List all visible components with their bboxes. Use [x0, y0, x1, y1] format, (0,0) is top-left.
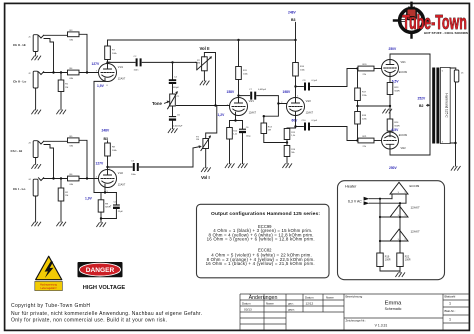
wire cathode to R15: [287, 127, 296, 129]
triode V3/1 12AX7: [227, 96, 257, 116]
capacitor C6 bypass: [242, 121, 244, 129]
jack J2 Ch II - Lo: [13, 71, 44, 88]
svg-text:127V: 127V: [92, 62, 101, 66]
wire grid bus Ch II: [44, 71, 99, 74]
svg-text:16 Ohm = 1 (black) + 4 (yellow: 16 Ohm = 1 (black) + 4 (yellow) = 21,5 k…: [206, 261, 315, 266]
wire R15 to R16: [286, 140, 288, 146]
capacitor C10 cathode out: [296, 115, 304, 126]
transformer core bar right: [436, 68, 439, 144]
ground J1: [35, 52, 37, 56]
resistor R23 560R: [389, 77, 391, 83]
svg-text:2: 2: [96, 177, 97, 179]
svg-text:7: 7: [96, 71, 97, 73]
ground P2: [200, 81, 210, 86]
ground C5: [168, 128, 178, 133]
wire C3 to Vol I wiper: [139, 148, 193, 167]
svg-text:158V: 158V: [227, 90, 236, 94]
jack J5 speaker: [454, 70, 464, 82]
transformer secondary winding box: [440, 68, 450, 144]
wire V9/2 plate to OT: [390, 149, 430, 155]
svg-text:6,3 V AC: 6,3 V AC: [348, 200, 362, 204]
wire rail to R14: [295, 40, 297, 63]
svg-text:Copyright by Tube-Town GmbH: Copyright by Tube-Town GmbH: [11, 303, 90, 309]
heater triangle 12AX7 (V3): [390, 229, 408, 241]
transformer core bar left: [432, 68, 435, 144]
wire rail to R11: [238, 40, 240, 67]
wire P2 bottom to ground: [203, 71, 205, 81]
svg-text:1M: 1M: [268, 130, 271, 132]
resistor R17 220k: [357, 69, 359, 89]
wire V1/1 cathode down to shared cathode: [94, 81, 105, 192]
wire R8 to V1/2 plate: [107, 156, 109, 170]
wire J3 to R5: [44, 140, 68, 142]
svg-text:ECC99: ECC99: [410, 184, 420, 188]
svg-text:7: 7: [227, 105, 228, 107]
wire C3 coupling: [108, 166, 133, 168]
junction dots grid bus Ch I: [52, 177, 54, 179]
svg-text:100R: 100R: [405, 259, 411, 262]
svg-text:100µ: 100µ: [246, 136, 251, 138]
capacitor C9 plate out: [296, 86, 304, 88]
svg-text:12AX7: 12AX7: [411, 230, 420, 234]
wire V3/1 cathode: [230, 115, 243, 120]
wire R20 to V9/1 grid: [374, 68, 382, 70]
wire V9/1 plate to OT: [390, 54, 430, 60]
svg-text:1M: 1M: [197, 63, 200, 65]
svg-text:250V: 250V: [389, 166, 398, 170]
triode V1/2 12AX7: [96, 168, 126, 193]
triode V9/1 ECC99: [382, 60, 408, 77]
svg-text:1M: 1M: [65, 195, 68, 197]
heater triangle ECC99: [390, 182, 408, 194]
jack J4 Ch I - Lo: [13, 178, 44, 196]
wire secondary top to J5: [450, 68, 456, 70]
wire B3 supply rail: [108, 39, 296, 41]
svg-text:Ch I - Hi: Ch I - Hi: [11, 149, 23, 153]
resistor R14 100k: [293, 63, 299, 77]
svg-text:Nur für private, nicht kommerz: Nur für private, nicht kommerzielle Anwe…: [11, 311, 202, 317]
svg-text:1: 1: [297, 96, 298, 98]
svg-text:gez.:: gez.:: [288, 301, 294, 305]
jack J3 Ch I - Hi: [11, 141, 44, 158]
svg-text:1,2V: 1,2V: [218, 113, 226, 117]
svg-text:Heater: Heater: [345, 185, 357, 189]
capacitor C1 22µF: [115, 193, 117, 205]
svg-text:DANGER: DANGER: [86, 267, 115, 274]
wire R3 to grid bus: [79, 34, 87, 72]
triode V1/1 12AX7: [96, 62, 126, 87]
wire C9 to upper grid rail: [311, 69, 358, 87]
ground J2: [35, 88, 37, 110]
resistor R18 220k: [357, 101, 359, 112]
svg-text:HIGH VOLTAGE: HIGH VOLTAGE: [83, 285, 126, 291]
svg-text:Datum: Datum: [242, 301, 251, 305]
svg-text:B2: B2: [419, 104, 424, 108]
capacitor C7 0,055µF: [251, 92, 255, 100]
wire heater bus A: [369, 199, 392, 253]
svg-text:Only for private, non commerci: Only for private, non commercial use. Bu…: [11, 318, 167, 324]
resistor R16 56k: [284, 146, 290, 157]
ground cathode V1: [96, 222, 106, 227]
logo crosshair ring: [400, 9, 424, 33]
wire coupling C2: [108, 61, 136, 63]
wire tone node to V3/1 grid: [177, 105, 230, 107]
svg-text:V 1.3.31: V 1.3.31: [375, 324, 388, 328]
svg-text:Änderungen: Änderungen: [249, 294, 278, 301]
svg-text:V1/1: V1/1: [118, 66, 124, 69]
svg-text:100n: 100n: [134, 70, 140, 72]
svg-text:Tone: Tone: [152, 101, 163, 106]
heater triangle 12AX7 (V1): [390, 205, 408, 217]
wire B3 feed down: [295, 22, 297, 40]
svg-text:22µF: 22µF: [118, 211, 124, 213]
ground J3: [35, 158, 37, 165]
svg-text:Bezeichnung: Bezeichnung: [346, 295, 363, 299]
resistor R2 1M: [60, 179, 62, 189]
svg-text:248V: 248V: [102, 128, 111, 132]
svg-text:03/13: 03/13: [244, 308, 252, 312]
logo tube glyph: [407, 9, 416, 20]
svg-text:Ch I - Lo: Ch I - Lo: [13, 187, 25, 191]
wire shared cathode bus: [94, 187, 116, 192]
wire P2 top to node line: [204, 53, 215, 106]
capacitor C4 500pF: [169, 80, 176, 83]
wire grid bus Ch I: [44, 177, 99, 180]
svg-text:0,1µF: 0,1µF: [312, 120, 318, 122]
jack J1 Ch II - Hi: [13, 35, 44, 52]
svg-text:1: 1: [449, 302, 451, 306]
wire heater links tube 2: [380, 216, 406, 218]
ground J4: [35, 196, 37, 222]
resistor R4 68k: [68, 70, 80, 75]
svg-text:1,9V: 1,9V: [97, 84, 105, 88]
ground R16: [282, 163, 292, 168]
svg-text:12/12: 12/12: [306, 301, 314, 305]
svg-text:V9/1: V9/1: [401, 61, 407, 64]
svg-text:Ch II - Hi: Ch II - Hi: [13, 43, 26, 47]
capacitor C3 100n: [134, 163, 138, 171]
resistor R7 100k: [105, 46, 111, 60]
wire B3 to R8: [107, 141, 109, 143]
wire V1/1 plate: [107, 60, 109, 64]
triode V3/2 12AX7: [281, 96, 313, 116]
svg-text:Vol II: Vol II: [200, 46, 210, 51]
resistor R6 68k: [68, 176, 80, 181]
svg-text:V3/1: V3/1: [249, 100, 255, 103]
svg-text:127V: 127V: [96, 162, 105, 166]
wire P3 bottom to ground: [205, 149, 207, 168]
potentiometer P3 Vol I: [193, 135, 211, 150]
transformer primary lead line: [429, 54, 431, 155]
potentiometer P1 Tone: [165, 84, 181, 109]
wire R14 to V3/2 plate: [295, 76, 297, 98]
warning label Hochspannung: [35, 281, 63, 290]
svg-text:gepr.:: gepr.:: [288, 307, 295, 311]
title block grid: [240, 294, 469, 330]
resistor R11 100k plate V3/1: [236, 67, 242, 80]
wire J3 switch to grid bus: [44, 145, 54, 179]
svg-text:Blatt-Nr.:: Blatt-Nr.:: [445, 309, 456, 313]
wire heater links tube 3: [380, 240, 406, 242]
wire heater resistor bottoms: [380, 267, 400, 273]
ground C6: [238, 163, 248, 168]
logo dashes: [401, 19, 405, 21]
capacitor C2 100n: [137, 58, 141, 66]
ground R10: [225, 163, 235, 168]
wire heater stubs tube 1: [392, 194, 406, 203]
ground P3: [201, 167, 211, 172]
svg-text:250V: 250V: [389, 47, 398, 51]
svg-text:V9/2: V9/2: [401, 147, 407, 150]
triode V9/2 ECC99: [382, 132, 408, 150]
ground secondary: [451, 166, 461, 171]
svg-text:Ch II - Lo: Ch II - Lo: [13, 79, 26, 83]
ground output cathodes: [382, 109, 392, 114]
resistor R20 22k: [356, 67, 358, 69]
svg-text:12AX7: 12AX7: [118, 184, 126, 187]
resistor R3 68k: [68, 32, 80, 37]
wire R17/R18 midpoint to cathode ground: [358, 105, 391, 107]
svg-text:12AX7: 12AX7: [118, 78, 126, 81]
svg-text:ECC99: ECC99: [399, 134, 408, 137]
wire J1 switch to grid bus: [44, 39, 54, 73]
wire secondary bottom to ground: [450, 82, 455, 166]
svg-text:ECC99: ECC99: [399, 71, 408, 74]
resistor R1 1M: [60, 73, 62, 81]
capacitor C5 0,0047µF: [172, 106, 174, 116]
wire R7 to B3 rail: [107, 40, 109, 46]
wire C10 to lower grid rail: [311, 127, 358, 141]
resistor R13 1M: [261, 123, 267, 134]
svg-text:1M: 1M: [196, 139, 199, 141]
wire node to P3 top: [206, 106, 217, 139]
wire R5 to grid bus: [79, 140, 87, 178]
wire C2 to Vol II wiper: [142, 61, 195, 63]
wire heater bus B: [369, 203, 406, 253]
svg-text:Emma: Emma: [385, 300, 403, 306]
svg-text:Schematic: Schematic: [385, 307, 402, 311]
ground R2: [56, 222, 66, 227]
svg-text:560R: 560R: [394, 90, 400, 92]
svg-text:Name: Name: [326, 295, 334, 299]
potentiometer P2 Vol II: [196, 56, 213, 71]
svg-text:100R: 100R: [385, 259, 391, 262]
resistor R15 1,5k: [284, 129, 290, 140]
wire B2 arrow to center tap: [427, 104, 429, 106]
svg-text:12AX7: 12AX7: [306, 112, 314, 115]
wire C7 to V3/2 grid and R13: [257, 96, 287, 123]
svg-text:198V: 198V: [283, 90, 292, 94]
svg-text:1,9V: 1,9V: [85, 197, 93, 201]
junction dots grid bus Ch II: [52, 71, 54, 73]
resistor R9 820R: [100, 193, 102, 200]
svg-text:0,0047µF: 0,0047µF: [173, 125, 183, 127]
svg-text:Datum: Datum: [305, 295, 314, 299]
svg-text:12AX7: 12AX7: [249, 112, 257, 115]
svg-text:1M: 1M: [65, 87, 68, 89]
svg-text:252V: 252V: [418, 97, 427, 101]
svg-text:Blattzahl: Blattzahl: [445, 295, 456, 299]
wire plate to C7: [239, 95, 250, 97]
svg-text:0,055µF: 0,055µF: [258, 89, 267, 91]
wire R21 to V9/2 grid: [374, 140, 382, 142]
wire R13 to tail junction: [264, 134, 287, 143]
svg-text:1: 1: [109, 168, 110, 170]
svg-text:16 Ohm = 3 (green) + 6 (white): 16 Ohm = 3 (green) + 6 (white) = 12,8 kO…: [207, 236, 315, 241]
svg-text:Name: Name: [266, 301, 274, 305]
wire tone branch: [172, 62, 174, 79]
warning triangle high voltage: [36, 256, 62, 280]
svg-text:Lebensgefahr!: Lebensgefahr!: [41, 287, 57, 290]
resistor R5 68k: [68, 138, 80, 143]
svg-text:V3/2: V3/2: [306, 100, 312, 103]
svg-text:12AX7: 12AX7: [411, 206, 420, 210]
svg-text:6,5V: 6,5V: [392, 128, 400, 132]
svg-text:60V: 60V: [292, 118, 299, 122]
ground heater: [395, 272, 405, 277]
svg-text:0,1µF: 0,1µF: [312, 80, 318, 82]
resistor R10 1,2k: [229, 121, 231, 128]
svg-text:HOT STUFF - COOL SOUNDS: HOT STUFF - COOL SOUNDS: [424, 31, 468, 35]
resistor R21 22k: [356, 139, 358, 141]
svg-text:8: 8: [107, 85, 108, 87]
wire R11 to V3/1 plate: [238, 80, 240, 98]
svg-text:B3: B3: [291, 18, 296, 22]
heater feed arrow B: [364, 201, 370, 205]
svg-text:2: 2: [281, 102, 282, 104]
svg-text:Zeichnungs-Nr.:: Zeichnungs-Nr.:: [346, 319, 367, 323]
resistor R8 100k: [105, 143, 111, 156]
wire J1 to R3: [44, 34, 68, 36]
svg-text:Vol I: Vol I: [201, 175, 210, 180]
junction heater dots: [379, 198, 381, 200]
ground R1: [56, 110, 66, 115]
svg-text:1: 1: [449, 318, 451, 322]
heater feed arrow A: [364, 197, 370, 201]
svg-text:V1/2: V1/2: [118, 172, 124, 175]
resistor R22 100R: [397, 253, 403, 267]
svg-text:248V: 248V: [288, 11, 297, 15]
svg-text:B3: B3: [104, 137, 109, 141]
svg-text:Output configurations Hammond: Output configurations Hammond 125 series…: [211, 211, 320, 217]
resistor R24 560R: [387, 119, 393, 131]
svg-text:Hammond 125 C: Hammond 125 C: [444, 93, 448, 118]
wire cathode to ground: [101, 219, 116, 223]
svg-text:500pF: 500pF: [173, 87, 180, 89]
DANGER sign: [78, 262, 123, 277]
svg-text:100n: 100n: [131, 174, 137, 176]
resistor R19 100R: [377, 253, 383, 267]
